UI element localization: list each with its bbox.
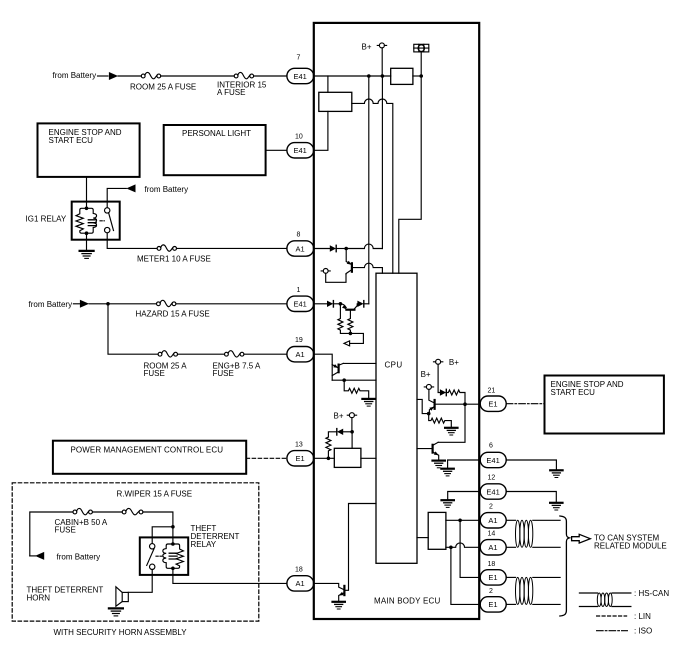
wire ROOM fuse to ENG+B fuse: [178, 353, 225, 355]
POWER MANAGEMENT CONTROL ECU box: [53, 441, 246, 474]
junction E41 7 bus / noise filter: [419, 74, 423, 78]
junction A1 8 node: [344, 247, 348, 251]
wire twisted pair to brace (E1 2): [533, 603, 560, 605]
svg-text:: ISO: : ISO: [634, 627, 652, 636]
svg-text:HAZARD 15 A FUSE: HAZARD 15 A FUSE: [136, 309, 210, 318]
connector pin A1 18 (left): [287, 566, 314, 591]
wire IG1 switch to METER1 fuse: [107, 233, 157, 249]
ENGINE STOP AND START ECU box (left): [38, 123, 140, 176]
wire pin E41 12 to right ground: [506, 492, 556, 503]
wire arrow to junction (hazard row): [89, 303, 108, 305]
IG1 relay coil: [76, 208, 97, 233]
svg-text:E41: E41: [486, 487, 499, 496]
battery feed arrow (hazard row): [80, 300, 89, 308]
open arrow (sense, pointing left): [344, 341, 350, 346]
wire battery feed riser (security box): [30, 512, 73, 556]
svg-text:ROOM 25 A FUSE: ROOM 25 A FUSE: [130, 82, 196, 91]
fuse R.WIPER 15 A FUSE: [122, 508, 143, 514]
junction IG1 coil top: [85, 207, 89, 211]
theft relay switch contacts: [147, 544, 155, 570]
wire IG1 coil to ground: [86, 233, 88, 250]
junction theft relay coil feed: [171, 525, 175, 529]
svg-text:POWER MANAGEMENT CONTROL ECU: POWER MANAGEMENT CONTROL ECU: [71, 445, 224, 454]
ground (E41 6 right): [550, 470, 562, 477]
wire twisted pair to brace (E1 18): [533, 576, 560, 578]
MAIN BODY ECU outline box: [314, 23, 479, 619]
resistor R5 (E1 21 flyback): [446, 390, 465, 404]
svg-text:RELAY: RELAY: [191, 540, 217, 549]
junction hazard node: [339, 302, 343, 306]
component box (CAN transceiver): [428, 512, 446, 549]
component box (regulator) on E41 7 bus: [391, 68, 413, 84]
connector pin E41 7 (left): [287, 55, 314, 84]
ground (Q6 emitter): [333, 602, 345, 609]
svg-text:B+: B+: [334, 412, 344, 421]
WITH SECURITY HORN ASSEMBLY dashed enclosure: [12, 483, 259, 621]
wire pin A1 8 to diode: [314, 248, 330, 250]
junction Q4 emitter node: [427, 412, 431, 416]
wire theft relay coil to pin A1 18: [173, 568, 287, 583]
noise filter symbol (top): [414, 44, 429, 52]
fuse ROOM 25 A FUSE (lower row): [158, 351, 177, 357]
ground (IG1 relay coil): [80, 251, 94, 259]
wire pin E1 13 to driver box: [314, 457, 335, 459]
diode (E41 1 input): [327, 301, 333, 307]
svg-text:10: 10: [295, 133, 303, 140]
wire diode node to diode: [343, 431, 352, 433]
ground (theft deterrent horn): [109, 608, 123, 616]
wire (dash-dot ISO) pin E1 21 to ENGINE STOP ECU: [506, 403, 544, 405]
svg-text:2: 2: [489, 588, 493, 595]
svg-text:from Battery: from Battery: [53, 71, 97, 80]
connector pin A1 19 (left): [287, 337, 314, 362]
fuse ENG+B 7.5 A FUSE: [225, 351, 244, 357]
horn THEFT DETERRENT HORN: [116, 587, 128, 606]
svg-text:13: 13: [295, 441, 303, 448]
ground (R6): [445, 428, 457, 435]
svg-text:from Battery: from Battery: [145, 185, 189, 194]
B+ terminal (E1 13 circuit): [347, 413, 356, 418]
resistor R6 (Q4 emitter to ground): [429, 414, 452, 428]
arrow to CAN system related module: [572, 534, 591, 543]
diode (hazard to B+ branch 1): [357, 301, 363, 307]
svg-text:E41: E41: [486, 456, 499, 465]
connector pin E41 1 (left): [287, 287, 314, 312]
wire CPU to CAN transceiver box: [417, 537, 428, 539]
wire PERSONAL LIGHT to pin E41 10: [266, 149, 287, 151]
wire CAN transceiver to pin A1 2: [446, 519, 480, 521]
ground (E41 12 internal): [442, 500, 454, 507]
svg-text:14: 14: [488, 530, 496, 537]
wire E41 7 bus drop to power supply box: [327, 76, 329, 92]
svg-text:12: 12: [488, 475, 496, 482]
svg-text:E1: E1: [488, 600, 497, 609]
svg-text:PERSONAL LIGHT: PERSONAL LIGHT: [182, 129, 251, 138]
svg-text:RELATED MODULE: RELATED MODULE: [594, 542, 667, 551]
junction theft coil bottom: [171, 567, 175, 571]
wire ENGINE STOP ECU to IG1 relay coil: [86, 177, 88, 208]
svg-text:IG1 RELAY: IG1 RELAY: [26, 215, 67, 224]
junction theft coil top: [171, 542, 175, 546]
ground (E41 12 right): [550, 503, 562, 510]
wire CPU to Q4 emitter node: [417, 399, 429, 413]
wire INTERIOR fuse to pin E41 7: [254, 75, 287, 77]
svg-text:A1: A1: [488, 543, 497, 552]
svg-text:A1: A1: [296, 579, 305, 588]
junction IG1 coil bottom: [85, 231, 89, 235]
svg-text:E1: E1: [296, 454, 305, 463]
junction CAN H node: [458, 519, 462, 523]
transistor Q1 (A1 8 driver): [346, 249, 352, 275]
wire pin A1 18 to transistor Q6: [314, 583, 344, 589]
battery feed arrow (security box, pointing left): [35, 552, 44, 560]
wire junction to HAZARD fuse: [108, 303, 157, 305]
svg-text:START ECU: START ECU: [551, 388, 596, 397]
connector pin A1 2 (right): [480, 503, 506, 528]
wire pin E41 7 internal bus: [314, 75, 391, 77]
svg-text:: HS-CAN: : HS-CAN: [634, 589, 669, 598]
wire diode to hazard node: [333, 303, 340, 305]
transistor Q4 (E1 21 high side): [429, 389, 435, 413]
wire diode to resistor R4: [328, 432, 336, 437]
svg-text:2: 2: [489, 503, 493, 510]
transistor Q5 (E1 21 low side): [417, 442, 439, 460]
ENGINE STOP AND START ECU box (right): [545, 376, 664, 434]
svg-text:B+: B+: [421, 370, 431, 379]
ground (A1 19 bias): [362, 399, 375, 406]
wire diode to junction: [336, 248, 346, 250]
wire theft relay switch to horn: [128, 570, 152, 593]
svg-text:HORN: HORN: [27, 593, 51, 602]
svg-text:FUSE: FUSE: [55, 526, 76, 535]
wire pin A1 2 to twisted pair: [506, 519, 515, 521]
B+ terminal (top): [377, 43, 386, 48]
svg-text:B+: B+: [449, 358, 459, 367]
svg-text:7: 7: [297, 55, 301, 62]
junction E41 7 bus / B+ branch 1: [367, 74, 371, 78]
wire R.WIPER fuse to theft relay: [143, 512, 173, 527]
relay THEFT DETERRENT RELAY box: [140, 537, 188, 575]
component box (E1 13 driver): [334, 448, 361, 467]
wire A1 19 lower line to CPU: [332, 379, 376, 381]
relay IG1 RELAY box: [72, 202, 120, 240]
svg-text:FUSE: FUSE: [144, 369, 165, 378]
wire Q1 base crossover to CPU: [352, 263, 383, 273]
wire pin E41 6 to right ground: [506, 460, 556, 470]
svg-text:21: 21: [488, 388, 496, 395]
wire HAZARD fuse to pin E41 1: [176, 303, 287, 305]
transistor Q3 (A1 19 input): [332, 363, 343, 375]
svg-text:18: 18: [295, 566, 303, 573]
wire power supply box to pin E41 10: [314, 111, 328, 150]
junction A1 19 bias node: [342, 378, 346, 382]
wire pin E41 12 internal to ground: [448, 492, 481, 500]
wire pin E41 1 to diode: [314, 303, 327, 305]
wire twisted pair to brace (A1 14): [533, 546, 560, 548]
fuse INTERIOR 15 A FUSE: [234, 72, 253, 78]
wire METER1 fuse to pin A1 8: [177, 247, 287, 249]
wire diode to B+ branch 1: [364, 303, 369, 305]
wire B+ terminal to diode: [438, 364, 440, 392]
resistor R4 (E1 13 pullup): [326, 437, 331, 458]
ground (E41 6 internal): [441, 469, 453, 476]
wire B+ terminal down to E41 7 bus: [381, 48, 383, 76]
wire pin A1 14 to twisted pair: [506, 546, 515, 548]
connector pin E1 13 (left): [287, 441, 314, 466]
wire Q3 collector to CPU: [343, 362, 376, 364]
svg-text:CPU: CPU: [385, 361, 403, 370]
svg-text:: LIN: : LIN: [634, 612, 651, 621]
wire hazard junction down to lower fuse row: [108, 304, 158, 354]
svg-text:MAIN BODY ECU: MAIN BODY ECU: [374, 597, 440, 606]
connector pin E41 10 (left): [287, 133, 314, 158]
legend HS-CAN symbol: [579, 593, 631, 607]
brace to CAN system: [560, 516, 569, 616]
wire E1 21 node down to Q5 collector: [438, 404, 465, 442]
junction hazard branch: [106, 302, 110, 306]
connector pin E1 21 (right): [480, 388, 506, 412]
fuse METER1 10 A FUSE: [157, 245, 176, 251]
connector pin E41 6 (right): [480, 443, 506, 468]
wire B+ branch 1 vertical: [368, 76, 370, 304]
svg-text:8: 8: [297, 232, 301, 239]
wire CABIN fuse to R.WIPER fuse: [92, 511, 122, 513]
wire (dashed) POWER MANAGEMENT ECU to pin E1 13: [246, 457, 287, 459]
legend ISO symbol (dash-dot): [597, 630, 628, 632]
wire power supply output with crossovers to CPU: [352, 99, 393, 273]
wire ENG+B fuse to pin A1 19: [244, 353, 287, 355]
resistor R3 (A1 19 bias): [344, 380, 369, 398]
battery feed arrow (IG1, pointing left): [126, 184, 135, 192]
IG1 relay switch contacts: [105, 208, 114, 233]
theft relay coil-switch link (dashed): [156, 555, 162, 557]
junction resistor node: [349, 332, 353, 336]
connector pin E1 2 (right): [480, 588, 506, 612]
wire diode node to driver box top: [351, 432, 353, 449]
junction E41 7 bus / B+ branch 2: [381, 74, 385, 78]
svg-text:B+: B+: [362, 42, 372, 51]
wire driver box to CPU: [361, 457, 376, 459]
connector pin A1 8 (left): [287, 232, 314, 257]
wire port terminal to Q1 emitter: [326, 273, 346, 282]
svg-text:18: 18: [488, 561, 496, 568]
connector pin E41 12 (right): [480, 475, 506, 500]
svg-text:E41: E41: [294, 300, 307, 309]
fuse CABIN+B 50 A FUSE: [73, 508, 92, 514]
legend LIN symbol (dashed): [597, 615, 627, 617]
wire junction to theft relay switch: [152, 527, 173, 544]
wire B+ branch 2 vertical: [381, 76, 383, 249]
IG1 relay coil-switch link (dashed): [100, 220, 104, 222]
wire arrow to ROOM fuse: [118, 75, 141, 77]
B+ terminal (E1 21 upper): [434, 359, 443, 364]
wire A1 8 node crossover to B+ branch 2: [346, 244, 382, 248]
svg-text:from Battery: from Battery: [57, 552, 101, 561]
wire regulator to noise filter junction: [413, 75, 421, 77]
resistor R1 (hazard node pulldown): [338, 304, 351, 334]
fuse ROOM 25 A FUSE: [141, 72, 160, 78]
connector pin A1 14 (right): [480, 530, 506, 555]
wire pin E41 6 internal to ground: [448, 460, 481, 468]
wire noise filter down to E41 7 bus: [420, 52, 422, 76]
svg-text:A1: A1: [488, 516, 497, 525]
fuse HAZARD 15 A FUSE: [157, 300, 176, 306]
ground (Q5 emitter): [433, 461, 445, 468]
svg-text:FUSE: FUSE: [213, 369, 234, 378]
wire battery arrow to IG1 relay switch: [107, 188, 126, 207]
svg-text:A FUSE: A FUSE: [217, 88, 245, 97]
wire resistor node loop to sense arrow: [350, 333, 364, 343]
svg-text:WITH SECURITY HORN ASSEMBLY: WITH SECURITY HORN ASSEMBLY: [54, 628, 188, 637]
junction E1 13 node: [327, 457, 331, 461]
diode (E1 21 flyback): [440, 389, 446, 395]
svg-text:A1: A1: [296, 350, 305, 359]
CPU box U1: [376, 273, 417, 563]
junction E1 21 node: [463, 402, 467, 406]
twisted pair HS-CAN (E1 18 / E1 2): [516, 577, 533, 604]
wire pin E1 2 to twisted pair: [506, 603, 515, 605]
wire pin E1 18 to twisted pair: [506, 576, 515, 578]
port terminal (IG input): [321, 269, 330, 274]
B+ terminal (E1 21 lower): [424, 384, 433, 389]
svg-text:from Battery: from Battery: [29, 300, 73, 309]
wire ROOM fuse to INTERIOR fuse: [161, 75, 235, 77]
wire twisted pair to brace (A1 2): [533, 519, 560, 521]
junction CAN L node: [449, 546, 453, 550]
connector pin E1 18 (right): [480, 561, 506, 585]
battery feed arrow (top row): [109, 72, 118, 80]
twisted pair HS-CAN (A1 2 / A1 14): [516, 520, 533, 547]
svg-text:19: 19: [295, 337, 303, 344]
svg-text:1: 1: [297, 287, 301, 294]
wire noise filter vertical with jog to CPU: [399, 76, 421, 273]
junction diode node (E1 13): [350, 430, 354, 434]
svg-text:E41: E41: [294, 146, 307, 155]
component box (power supply): [319, 92, 352, 111]
diode (A1 8 input): [330, 245, 336, 251]
PERSONAL LIGHT box: [164, 125, 266, 175]
resistor R2 (Q2 base): [348, 310, 353, 334]
wire pin A1 19 into ECU: [314, 354, 332, 380]
wire from Battery to arrow (top row): [98, 75, 109, 77]
transistor Q6 (A1 18 driver): [339, 504, 376, 602]
wire CAN H node to pin E1 18: [460, 520, 480, 577]
svg-text:R.WIPER 15 A FUSE: R.WIPER 15 A FUSE: [117, 490, 193, 499]
wire Q4 base to pin E1 21: [435, 403, 481, 406]
theft relay coil: [163, 527, 184, 569]
svg-text:A1: A1: [296, 244, 305, 253]
wire B+ terminal down to diode node: [351, 418, 353, 432]
wire CAN L node to pin E1 2: [451, 547, 480, 604]
wire arrow stub (security box): [30, 555, 36, 557]
svg-text:E1: E1: [488, 400, 497, 409]
svg-text:E41: E41: [294, 72, 307, 81]
wire CAN transceiver to pin A1 14 with crossover: [446, 543, 480, 547]
svg-text:E1: E1: [488, 573, 497, 582]
svg-text:METER1 10 A FUSE: METER1 10 A FUSE: [137, 255, 211, 264]
diode (E1 13, pointing left): [337, 429, 343, 435]
svg-text:6: 6: [489, 443, 493, 450]
transistor Q2 (hazard): [340, 304, 357, 310]
svg-text:START ECU: START ECU: [49, 136, 94, 145]
wire from Battery to arrow (hazard row): [73, 303, 80, 305]
